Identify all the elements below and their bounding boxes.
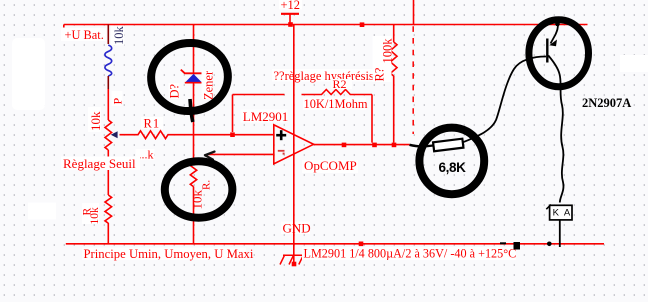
junction output c: [392, 143, 397, 148]
label GND: [281, 221, 311, 236]
label ...k: [136, 147, 155, 161]
junction output a: [342, 143, 347, 148]
wire divider mid: [107, 76, 109, 89]
svg-text:K: K: [553, 208, 560, 219]
label +12: [279, 0, 302, 12]
hand circle around zener: [148, 40, 230, 122]
svg-text:10k: 10k: [189, 190, 204, 210]
svg-text:+12: +12: [281, 0, 301, 12]
wire divider column top stub: [107, 25, 109, 45]
annotation arrow (black): [205, 152, 215, 160]
wire to opamp - input: [207, 153, 274, 155]
hand dot on rail: [547, 242, 552, 247]
label D? (rotated): [168, 83, 182, 99]
resistor 6,8K box: [433, 139, 463, 152]
label Principe: [82, 247, 254, 261]
wire zener column bottom: [193, 187, 195, 244]
label ??reglage hysteresis: [272, 69, 374, 83]
label 10k R. (rotated): [189, 180, 212, 210]
hand wire K A to rail: [559, 220, 561, 247]
resistor 10k (blue, from +U): [105, 45, 112, 76]
label OpCOMP: [302, 158, 358, 173]
label Zener (rotated): [202, 70, 216, 100]
resistor R? 100k: [390, 42, 397, 76]
svg-text:P: P: [111, 98, 125, 105]
junction at R1/feedback node: [230, 132, 235, 137]
junction rail x362: [360, 22, 365, 27]
label 2N2907A: [580, 96, 631, 110]
svg-text:10k: 10k: [112, 26, 126, 46]
hand wire 6,8K to base: [463, 57, 547, 143]
svg-text:GND: GND: [283, 221, 311, 236]
label P: [111, 91, 125, 106]
potentiometer P body: [105, 120, 112, 150]
svg-text:10K/1Mohm: 10K/1Mohm: [304, 97, 368, 111]
svg-text:6,8K: 6,8K: [439, 160, 467, 175]
svg-text:??règlage hystérésis: ??règlage hystérésis: [274, 69, 374, 83]
svg-text:A: A: [564, 208, 571, 219]
svg-text:LM2901 1/4 800µA/2 à 36V/ -40: LM2901 1/4 800µA/2 à 36V/ -40 à +125°C: [304, 247, 517, 261]
value 10k (navy, rotated): [111, 26, 126, 46]
hand circle around transistor: [529, 20, 589, 87]
zener diode D? cathode bar: [181, 70, 206, 77]
hand circle around 6,8K: [419, 128, 484, 195]
svg-text:R2: R2: [333, 77, 347, 91]
svg-text:100k: 100k: [381, 38, 395, 64]
svg-text:10k: 10k: [89, 207, 101, 225]
transistor Q 2N2907A: [547, 22, 563, 203]
net GND bottom rail: [66, 243, 604, 245]
svg-text:...k: ...k: [139, 147, 154, 161]
junction +12 on rail: [288, 22, 293, 27]
svg-text:R?: R?: [373, 67, 387, 81]
wire zener column mid: [193, 83, 195, 159]
wire pullup column top: [393, 25, 395, 43]
chassis ground symbol: [280, 255, 304, 266]
junction bottom rail: [359, 242, 364, 247]
wire +12 from top edge: [413, 0, 415, 25]
value 10k (pot, rotated): [88, 107, 103, 132]
svg-text:LM2901: LM2901: [243, 109, 288, 124]
op-amp U LM2901: [274, 125, 314, 164]
svg-text:2N2907A: 2N2907A: [582, 96, 631, 110]
label R? 100k (rotated): [373, 36, 395, 82]
svg-text:Principe Umin, Umoyen, U Maxi: Principe Umin, Umoyen, U Maxi: [84, 247, 254, 261]
zener diode D? anode triangle: [185, 74, 202, 83]
wire feedback left vertical: [232, 95, 234, 133]
wire pullup column bottom: [393, 76, 395, 143]
resistor 10k (circled): [190, 159, 196, 187]
resistor R2 feedback: [233, 90, 373, 143]
label Reglage Seuil: [61, 156, 140, 171]
svg-text:+U Bat.: +U Bat.: [65, 28, 104, 42]
hand wire output to 6,8K box: [410, 145, 434, 147]
label R2: [331, 77, 352, 91]
hand blob on rail: [514, 242, 521, 250]
power +12 symbol: [281, 14, 299, 25]
resistor R 10k: [105, 195, 112, 223]
wire divider lower: [107, 150, 109, 195]
wire opamp power from +12 rail to GND: [293, 25, 295, 263]
label LM2901 spec: [302, 247, 516, 261]
svg-text:OpCOMP: OpCOMP: [304, 158, 357, 173]
white patch right top: [620, 55, 648, 72]
white patch lower left: [28, 203, 56, 220]
svg-text:10k: 10k: [88, 111, 103, 131]
wire to opamp + input: [233, 134, 274, 136]
white patch left: [12, 38, 45, 110]
svg-text:R1: R1: [144, 116, 161, 130]
label R 10k (rotated): [82, 203, 102, 225]
svg-text:Zener: Zener: [202, 70, 216, 100]
pot wiper arrow: [111, 131, 118, 138]
svg-text:Règlage Seuil: Règlage Seuil: [63, 156, 136, 171]
wire dashed (ghost): [412, 26, 414, 134]
junction output b: [372, 143, 377, 148]
label 10K/1Mohm: [303, 97, 368, 111]
svg-text:R.: R.: [200, 180, 212, 190]
hand dash on rail: [500, 242, 506, 244]
svg-text:D?: D?: [168, 83, 182, 98]
label +U Bat.: [61, 28, 106, 42]
net +U Bat top rail: [64, 25, 588, 28]
wire divider to GND rail: [107, 223, 109, 244]
resistor R1: [120, 131, 233, 139]
wire zener column top: [193, 25, 195, 74]
label LM2901: [241, 109, 289, 124]
hand circle around 10k resistor: [165, 161, 233, 217]
connector K A box: [546, 205, 572, 220]
label R1: [141, 116, 163, 130]
wire opamp output: [314, 144, 410, 146]
